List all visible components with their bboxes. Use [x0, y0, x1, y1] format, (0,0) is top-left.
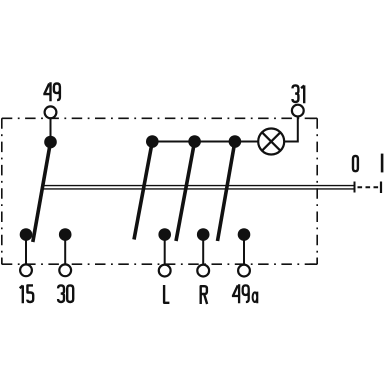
wire: contact dot L to terminal L	[164, 235, 166, 270]
node: contact dot 15	[20, 228, 33, 241]
wire: contact dot 30 to terminal 30	[64, 235, 66, 270]
terminal 15 (circle)	[20, 264, 32, 276]
label: switch position I	[381, 154, 384, 173]
terminal 49a (circle)	[238, 265, 250, 277]
switch arm (pole 2, toward L)	[134, 142, 152, 240]
label: terminal 49a	[232, 284, 257, 303]
node: contact dot pole 4	[229, 135, 242, 148]
switch arm (pole 4, toward 49a)	[218, 142, 235, 242]
terminal R (circle)	[197, 265, 209, 277]
indicator lamp H1	[258, 129, 284, 155]
label: terminal 30	[58, 285, 73, 302]
wire: contact bus L-R-lamp	[152, 141, 258, 143]
wire: contact dot 49a to terminal 49a	[243, 235, 245, 270]
terminal 31 (circle)	[292, 105, 304, 117]
node: contact dot pole 3	[188, 135, 201, 148]
position marker tick I	[380, 182, 382, 194]
node: contact dot R	[197, 228, 210, 241]
label: switch position 0	[353, 156, 358, 171]
wire: contact dot 15 to terminal 15	[25, 235, 27, 270]
node: contact dot L	[158, 228, 171, 241]
terminal 49 (circle)	[45, 106, 57, 118]
label: terminal 31	[293, 85, 305, 103]
node: contact dot 30	[59, 228, 72, 241]
mechanical linkage bar (double line)	[42, 186, 355, 189]
wire: lamp to terminal 31	[284, 111, 298, 142]
wire: terminal 49 to contact dot	[50, 113, 52, 142]
travel (dashed) to position I	[358, 186, 381, 188]
node: contact dot of 49	[44, 136, 57, 149]
terminal L (circle)	[159, 265, 171, 277]
switch arm (pole 1, from 49 toward 15)	[33, 142, 51, 242]
node: contact dot 49a	[238, 228, 251, 241]
switch arm (pole 3, toward R)	[176, 142, 195, 242]
wire: contact dot R to terminal R	[202, 235, 204, 270]
label: terminal R	[201, 286, 207, 304]
terminal 30 (circle)	[59, 264, 71, 276]
node: contact dot pole 2	[146, 135, 159, 148]
label: terminal L	[164, 285, 169, 303]
label: terminal 15	[20, 285, 34, 303]
switch housing S1 (dash-dot enclosure outline)	[2, 118, 317, 264]
position marker tick 0	[354, 182, 356, 193]
label: terminal 49	[43, 82, 60, 101]
